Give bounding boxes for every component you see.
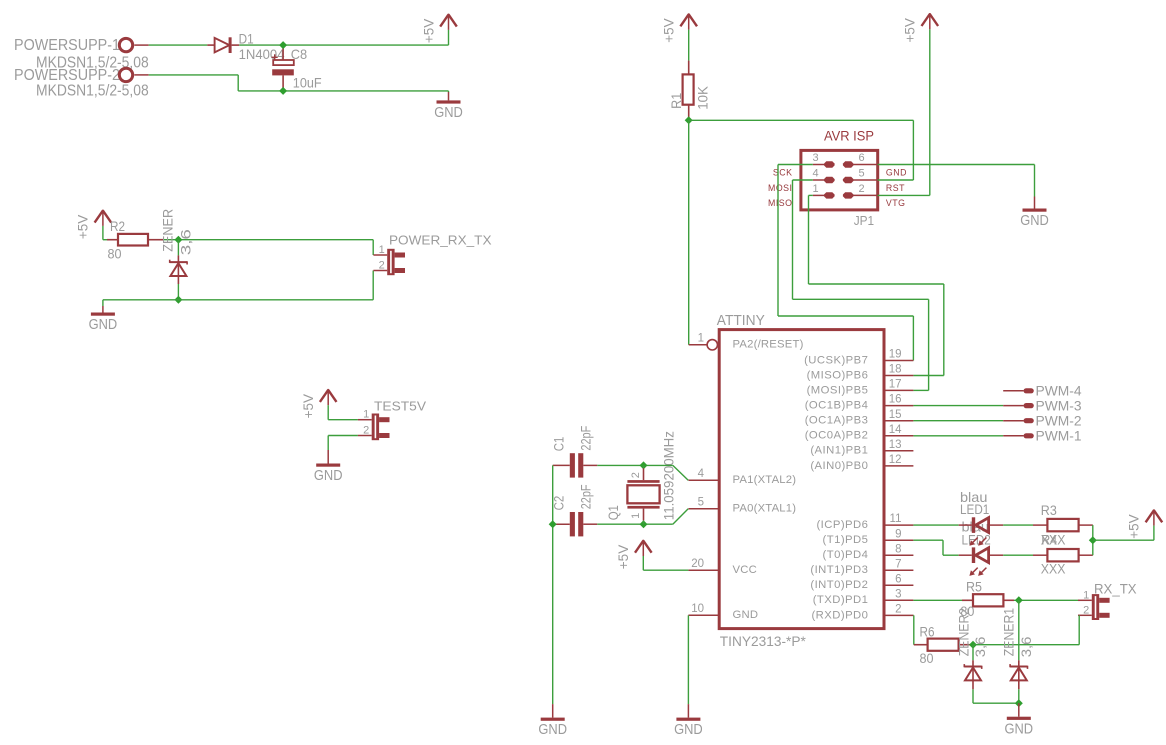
svg-text:GND: GND (674, 721, 703, 738)
svg-text:(INT0)PD2: (INT0)PD2 (810, 579, 868, 591)
svg-text:VTG: VTG (886, 198, 906, 208)
svg-text:10K: 10K (696, 86, 711, 110)
svg-text:(OC1A)PB3: (OC1A)PB3 (805, 415, 869, 427)
svg-text:ZENER1: ZENER1 (1001, 608, 1016, 656)
svg-text:GND: GND (886, 167, 907, 177)
svg-text:5: 5 (858, 168, 864, 180)
svg-text:TEST5V: TEST5V (374, 399, 426, 414)
svg-text:9: 9 (895, 528, 901, 540)
svg-text:2: 2 (858, 183, 864, 195)
svg-text:VCC: VCC (733, 564, 757, 576)
svg-text:6: 6 (895, 573, 901, 585)
svg-text:(UCSK)PB7: (UCSK)PB7 (804, 354, 868, 366)
svg-text:80: 80 (920, 650, 934, 666)
svg-text:1: 1 (698, 333, 704, 345)
svg-text:GND: GND (89, 316, 118, 333)
svg-text:+5V: +5V (301, 394, 316, 418)
svg-text:C2: C2 (552, 496, 567, 511)
svg-text:+5V: +5V (662, 18, 677, 42)
svg-text:3: 3 (812, 152, 818, 164)
svg-text:11: 11 (890, 513, 902, 525)
svg-text:+5V: +5V (76, 215, 91, 239)
svg-text:POWERSUPP-1: POWERSUPP-1 (14, 37, 120, 54)
svg-text:GND: GND (538, 721, 567, 738)
svg-text:(T1)PD5: (T1)PD5 (823, 534, 869, 546)
svg-text:(RXD)PD0: (RXD)PD0 (811, 609, 868, 621)
svg-text:(T0)PD4: (T0)PD4 (823, 549, 869, 561)
svg-text:2: 2 (379, 260, 385, 272)
svg-text:22pF: 22pF (578, 484, 593, 509)
svg-text:AVR ISP: AVR ISP (824, 128, 874, 144)
svg-text:14: 14 (889, 424, 902, 436)
svg-text:13: 13 (889, 439, 902, 451)
svg-text:(AIN0)PB0: (AIN0)PB0 (810, 460, 868, 472)
svg-text:+5V: +5V (1127, 514, 1142, 538)
svg-text:18: 18 (889, 364, 902, 376)
svg-text:3,6: 3,6 (973, 637, 988, 658)
svg-text:PA0(XTAL1): PA0(XTAL1) (733, 503, 797, 515)
svg-text:(MISO)PB6: (MISO)PB6 (807, 369, 869, 381)
svg-text:R4: R4 (1041, 531, 1057, 547)
svg-text:15: 15 (889, 409, 902, 421)
svg-text:10uF: 10uF (293, 74, 322, 90)
svg-text:PWM-4: PWM-4 (1036, 384, 1082, 399)
svg-text:+5V: +5V (903, 18, 918, 42)
svg-text:(ICP)PD6: (ICP)PD6 (816, 519, 868, 531)
svg-text:Q1: Q1 (606, 505, 621, 520)
svg-text:2: 2 (895, 604, 901, 616)
svg-text:(TXD)PD1: (TXD)PD1 (813, 594, 869, 606)
svg-text:ATTINY: ATTINY (717, 313, 765, 329)
svg-text:R2: R2 (110, 218, 125, 234)
svg-text:1: 1 (363, 409, 369, 421)
svg-text:R6: R6 (920, 623, 935, 639)
svg-text:(INT1)PD3: (INT1)PD3 (810, 564, 868, 576)
svg-text:11.059200MHz: 11.059200MHz (662, 431, 677, 520)
svg-text:C1: C1 (552, 437, 567, 452)
svg-text:MISO: MISO (768, 198, 792, 208)
svg-text:(OC0A)PB2: (OC0A)PB2 (805, 430, 869, 442)
svg-text:1: 1 (1083, 589, 1089, 601)
svg-text:20: 20 (691, 558, 704, 570)
svg-text:RST: RST (886, 183, 905, 193)
svg-text:17: 17 (889, 379, 902, 391)
svg-text:POWERSUPP-2: POWERSUPP-2 (14, 67, 120, 84)
svg-text:SCK: SCK (773, 167, 793, 177)
svg-text:PA1(XTAL2): PA1(XTAL2) (733, 474, 797, 486)
svg-text:22pF: 22pF (578, 426, 593, 451)
svg-text:PA2(/RESET): PA2(/RESET) (733, 339, 804, 351)
svg-text:10: 10 (691, 603, 704, 615)
svg-text:R1: R1 (669, 93, 684, 109)
svg-text:80: 80 (108, 246, 122, 262)
svg-text:4: 4 (698, 468, 705, 480)
svg-text:GND: GND (733, 609, 759, 621)
svg-text:LED1: LED1 (960, 502, 989, 517)
svg-text:MOSI: MOSI (768, 183, 792, 193)
svg-text:XXX: XXX (1041, 560, 1066, 576)
svg-text:12: 12 (889, 454, 902, 466)
svg-text:5: 5 (698, 497, 704, 509)
svg-text:2: 2 (1083, 604, 1089, 616)
svg-text:(AIN1)PB1: (AIN1)PB1 (810, 445, 868, 457)
svg-text:19: 19 (889, 349, 902, 361)
svg-text:GND: GND (434, 104, 463, 121)
svg-text:MKDSN1,5/2-5,08: MKDSN1,5/2-5,08 (36, 82, 149, 99)
svg-text:(MOSI)PB5: (MOSI)PB5 (807, 384, 869, 396)
svg-text:3,6: 3,6 (1019, 637, 1034, 658)
svg-text:1: 1 (812, 183, 818, 195)
svg-text:8: 8 (895, 543, 901, 555)
svg-text:6: 6 (858, 152, 864, 164)
svg-text:+5V: +5V (616, 545, 631, 569)
svg-text:POWER_RX_TX: POWER_RX_TX (389, 233, 492, 248)
svg-text:2: 2 (630, 472, 642, 478)
svg-text:D1: D1 (239, 31, 254, 47)
svg-text:JP1: JP1 (854, 213, 874, 228)
svg-text:PWM-3: PWM-3 (1036, 398, 1082, 413)
svg-text:1: 1 (630, 513, 642, 519)
svg-text:1: 1 (379, 244, 385, 256)
svg-text:GND: GND (314, 467, 343, 484)
svg-text:TINY2313-*P*: TINY2313-*P* (720, 634, 806, 650)
svg-text:GND: GND (1005, 720, 1034, 737)
svg-text:+5V: +5V (421, 19, 436, 43)
svg-text:R3: R3 (1041, 502, 1057, 518)
svg-text:3: 3 (895, 588, 901, 600)
svg-text:16: 16 (889, 394, 902, 406)
svg-text:PWM-1: PWM-1 (1036, 429, 1082, 444)
svg-text:ZENER: ZENER (160, 209, 175, 252)
svg-text:3,6: 3,6 (179, 229, 194, 255)
svg-text:ZENER2: ZENER2 (957, 608, 972, 656)
svg-text:2: 2 (363, 425, 369, 437)
svg-text:GND: GND (1020, 212, 1049, 229)
svg-text:4: 4 (812, 168, 818, 180)
svg-text:R5: R5 (966, 578, 982, 594)
svg-text:7: 7 (895, 558, 901, 570)
svg-text:RX_TX: RX_TX (1094, 580, 1137, 596)
svg-text:PWM-2: PWM-2 (1036, 413, 1082, 428)
svg-text:(OC1B)PB4: (OC1B)PB4 (805, 400, 869, 412)
